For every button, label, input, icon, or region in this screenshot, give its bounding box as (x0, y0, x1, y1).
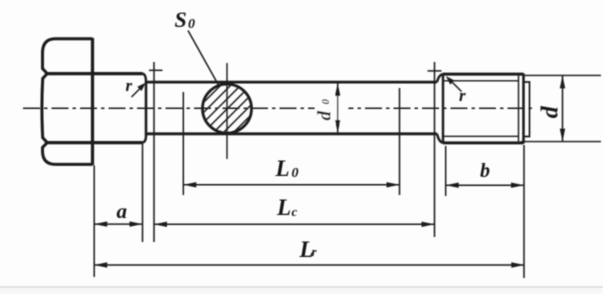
dimension Lc (154, 223, 435, 225)
svg-text:c: c (292, 204, 298, 219)
shank top edge + head facet line (47, 72, 143, 75)
section circle S0 (203, 84, 252, 133)
extension line thread start (445, 146, 447, 196)
dimension L0 (183, 184, 399, 186)
dimension b (446, 184, 524, 186)
reduced section top edge (146, 81, 437, 84)
dimension a (94, 223, 142, 225)
left tangent cross tick (149, 69, 163, 71)
r leader right (451, 81, 462, 92)
thread minor diameter lines (443, 81, 519, 137)
right fillet top (437, 74, 443, 82)
circle vertical centerline (226, 63, 228, 159)
r leader left (132, 87, 143, 98)
threaded section outline (443, 74, 524, 144)
step face line at fillet (145, 82, 148, 136)
svg-text:0: 0 (292, 166, 299, 181)
hex head (42, 38, 93, 165)
svg-text:S: S (175, 7, 187, 32)
svg-text:r: r (312, 244, 318, 259)
bottom faint rule (0, 286, 603, 288)
svg-text:b: b (480, 160, 490, 182)
svg-text:d: d (315, 111, 336, 121)
extension line reduced section start (153, 62, 155, 242)
svg-text:0: 0 (188, 17, 195, 32)
reduced section bottom edge (146, 132, 437, 135)
extension line head bearing face (93, 166, 95, 278)
svg-text:0: 0 (320, 99, 332, 105)
horizontal centerline (23, 107, 536, 109)
bolt end face (524, 82, 530, 137)
d extension bottom (521, 141, 601, 143)
extension line fillet start (142, 144, 144, 243)
extension line L0 right (399, 88, 401, 195)
left fillet bottom (143, 136, 147, 143)
dimension Lr (94, 264, 524, 266)
shank bottom edge + head facet line (47, 141, 143, 144)
extension line reduced section end (434, 62, 436, 237)
left fillet top (143, 74, 147, 83)
d extension top (524, 74, 601, 76)
svg-text:r: r (126, 76, 133, 95)
right fillet bottom (437, 134, 443, 143)
dimension d0 (337, 83, 339, 133)
white gap for d0 label (315, 95, 348, 124)
dimension d (562, 75, 564, 141)
extension line L0 left (182, 92, 184, 195)
svg-text:L: L (276, 195, 291, 220)
extension line bolt end (523, 145, 525, 278)
S0 leader line (188, 31, 219, 87)
right tangent cross tick (428, 70, 442, 72)
svg-text:d: d (537, 105, 563, 118)
svg-text:a: a (117, 199, 128, 223)
hatching (156, 60, 306, 150)
svg-text:L: L (275, 156, 290, 181)
svg-text:r: r (459, 86, 466, 105)
